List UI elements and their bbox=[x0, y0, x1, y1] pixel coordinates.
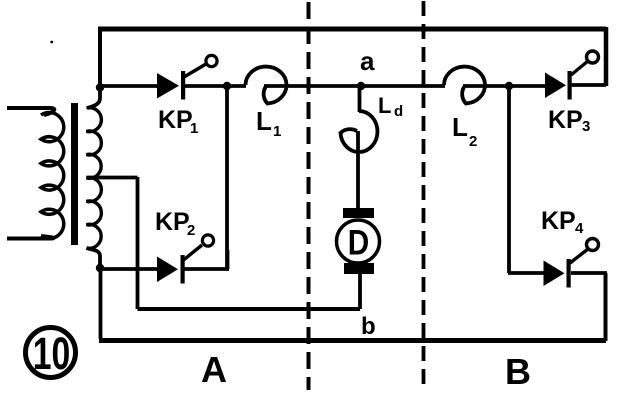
transformer core bbox=[71, 103, 78, 245]
wire: KP3 cathode to right corner bbox=[572, 83, 607, 87]
svg-text:b: b bbox=[361, 313, 376, 340]
svg-text:L: L bbox=[452, 112, 468, 142]
wire: L2 to KP3 junction bbox=[463, 84, 546, 88]
dashed separator line left (between section A and middle) bbox=[307, 2, 311, 390]
node: junction dot L2 / KP3 / KP4 bbox=[505, 82, 513, 90]
wire: Ld to motor bbox=[356, 131, 360, 209]
transformer secondary winding bbox=[87, 108, 102, 249]
wire: bottom-right vertical bbox=[604, 273, 608, 341]
wire: tap vertical down bbox=[136, 177, 140, 309]
svg-text:2: 2 bbox=[469, 133, 477, 150]
wire: node a to L2 bbox=[361, 84, 445, 88]
thyristor KP3 bbox=[545, 51, 599, 100]
wire: top rail bbox=[98, 27, 606, 32]
wire: bottom-left vertical to bottom rail bbox=[99, 268, 103, 339]
svg-text:A: A bbox=[201, 349, 227, 390]
wire: KP4 cathode to right corner bbox=[571, 271, 607, 275]
figure number 10 in circle bbox=[26, 328, 76, 380]
wire: KP1 anode wire bbox=[100, 84, 158, 88]
stray ink speck bbox=[50, 41, 53, 44]
transformer secondary bottom lead bbox=[87, 248, 101, 268]
thyristor KP1 bbox=[157, 55, 217, 99]
wire: motor bottom lead down and left to tap return bbox=[358, 274, 362, 309]
svg-text:3: 3 bbox=[582, 118, 590, 135]
wire: KP1 cathode to L1 bbox=[185, 84, 246, 88]
thyristor KP2 bbox=[157, 235, 214, 284]
wire: node a down to Ld bbox=[358, 86, 362, 112]
inductor L2 (single loop) bbox=[444, 67, 485, 104]
transformer secondary top lead bbox=[88, 86, 101, 108]
inductor L1 (single loop) bbox=[246, 67, 287, 104]
transformer T1 primary bottom lead bbox=[7, 236, 54, 239]
svg-text:KP: KP bbox=[158, 106, 193, 134]
wire: bottom return line (node b) bbox=[138, 307, 361, 311]
wire: KP2 cathode to bus bbox=[185, 250, 230, 269]
wire: top-left vertical drop bbox=[98, 27, 102, 88]
svg-text:d: d bbox=[394, 103, 403, 120]
transformer secondary center tap wire bbox=[87, 176, 138, 180]
svg-text:10: 10 bbox=[33, 329, 71, 379]
svg-text:KP: KP bbox=[548, 106, 583, 134]
svg-text:1: 1 bbox=[190, 120, 198, 137]
node: junction dot top-left (secondary top / KP1 anode) bbox=[96, 83, 104, 91]
svg-text:L: L bbox=[256, 106, 272, 136]
wire: cathode bus vertical bbox=[225, 86, 229, 269]
svg-text:D: D bbox=[348, 223, 369, 262]
transformer T1 primary winding bbox=[41, 113, 64, 239]
wire: KP2 anode wire bbox=[100, 267, 158, 271]
svg-text:KP: KP bbox=[155, 208, 190, 236]
svg-text:L: L bbox=[378, 93, 391, 118]
transformer T1 primary top lead bbox=[7, 108, 54, 115]
wire: KP4 anode wire bbox=[508, 271, 544, 275]
node: junction dot bottom-left (secondary bottom / KP2 anode) bbox=[96, 264, 104, 272]
wire: bottom rail bbox=[99, 338, 606, 343]
svg-text:B: B bbox=[505, 351, 531, 392]
inductor Ld (single loop, vertical) bbox=[341, 111, 378, 152]
dashed separator line right (between middle and section B) bbox=[422, 1, 426, 390]
svg-text:KP: KP bbox=[541, 207, 576, 235]
node a bbox=[357, 82, 365, 90]
svg-text:a: a bbox=[360, 46, 375, 76]
svg-text:2: 2 bbox=[187, 222, 195, 239]
thyristor KP4 bbox=[544, 239, 599, 288]
wire: junction down to KP4 bbox=[507, 86, 511, 273]
svg-text:4: 4 bbox=[575, 220, 584, 237]
svg-text:1: 1 bbox=[273, 123, 281, 140]
motor D bbox=[337, 208, 380, 274]
wire: L1 to node a bbox=[264, 84, 362, 88]
wire: top-right vertical drop bbox=[604, 27, 609, 86]
node: junction dot KP1/KP2 cathode bus bbox=[223, 82, 231, 90]
